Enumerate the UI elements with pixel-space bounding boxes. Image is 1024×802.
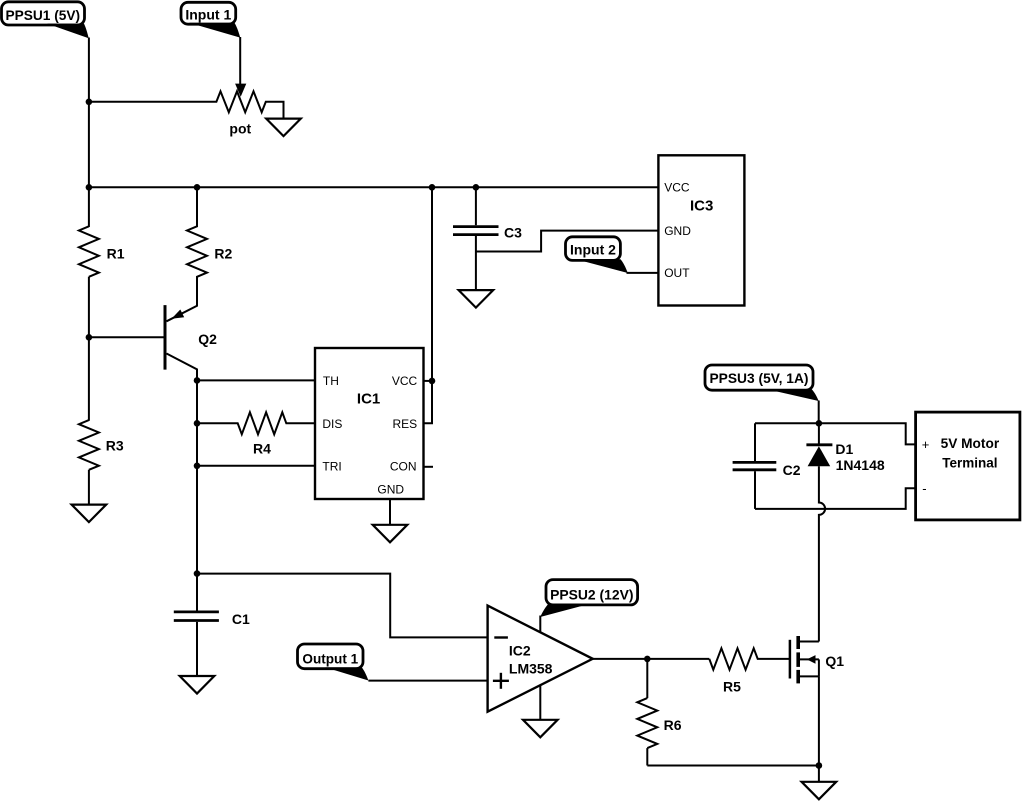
callout Input 1	[181, 2, 240, 37]
svg-text:GND: GND	[377, 482, 404, 496]
svg-text:TH: TH	[323, 374, 339, 388]
wire opamp V+ stub	[539, 616, 541, 634]
wire Q1 source to ground	[818, 676, 820, 782]
svg-text:Input 2: Input 2	[570, 241, 616, 257]
wire inverting input route	[197, 574, 488, 638]
wire PPSU3 drop	[818, 401, 820, 424]
svg-text:R1: R1	[107, 245, 125, 261]
svg-text:OUT: OUT	[664, 266, 690, 280]
wire R6 to Q1 source	[647, 765, 819, 767]
svg-text:R3: R3	[106, 438, 124, 454]
junction source R6	[816, 762, 823, 769]
ground C1	[180, 676, 215, 694]
svg-text:IC3: IC3	[690, 198, 713, 215]
svg-text:Q2: Q2	[198, 331, 217, 347]
pot wiper arrow	[235, 84, 246, 97]
svg-text:TRI: TRI	[322, 459, 341, 473]
junction TRI	[194, 463, 201, 470]
svg-text:VCC: VCC	[664, 181, 690, 195]
svg-text:+: +	[922, 437, 930, 452]
diode D1 1N4148	[806, 423, 884, 473]
wire IC3 OUT	[627, 272, 659, 274]
capacitor C2	[733, 423, 801, 509]
junction TH	[194, 377, 201, 384]
svg-text:R6: R6	[664, 717, 682, 733]
junction C1 tap	[194, 570, 201, 577]
wire IC1 GND pin	[389, 499, 391, 525]
junction C3 branch	[473, 184, 480, 191]
wire Q1 drain with hop	[819, 466, 825, 641]
wire Q2 base	[89, 336, 165, 338]
junction IC1 VCC branch	[429, 184, 436, 191]
svg-text:GND: GND	[664, 224, 691, 238]
svg-text:pot: pot	[229, 120, 251, 136]
wire top bus	[89, 186, 659, 188]
resistor R6	[637, 659, 681, 766]
svg-text:C1: C1	[232, 611, 250, 627]
resistor R2	[167, 187, 233, 321]
op-amp IC2 LM358	[488, 606, 593, 712]
wire non-inverting input	[368, 680, 487, 682]
svg-text:Input 1: Input 1	[185, 6, 231, 22]
potentiometer pot	[89, 91, 284, 136]
5V Motor Terminal box	[916, 412, 1020, 520]
svg-text:D1: D1	[835, 441, 853, 457]
callout Output 1	[298, 644, 369, 681]
resistor R3	[79, 420, 124, 470]
wire opamp output	[593, 658, 710, 660]
wire R3 to ground	[88, 470, 90, 505]
svg-text:R4: R4	[253, 441, 271, 457]
svg-text:CON: CON	[390, 459, 417, 473]
svg-text:PPSU3 (5V, 1A): PPSU3 (5V, 1A)	[710, 370, 809, 386]
resistor R4	[197, 412, 315, 456]
ground IC2	[523, 720, 558, 738]
junction IC1 VCC	[429, 378, 436, 385]
svg-text:LM358: LM358	[509, 660, 553, 676]
capacitor C3	[453, 187, 522, 290]
wire opamp V- stub	[539, 685, 541, 721]
svg-text:Terminal: Terminal	[942, 455, 997, 471]
wire 5V rail vertical (top)	[88, 38, 90, 228]
svg-text:R2: R2	[214, 245, 232, 261]
svg-text:Q1: Q1	[825, 653, 844, 669]
svg-text:IC1: IC1	[357, 390, 380, 407]
resistor R5	[709, 648, 790, 694]
svg-text:1N4148: 1N4148	[836, 457, 885, 473]
junction main bus left	[86, 184, 93, 191]
svg-text:5V Motor: 5V Motor	[941, 435, 1000, 451]
svg-text:PPSU1 (5V): PPSU1 (5V)	[6, 7, 81, 23]
transistor Q1	[790, 636, 844, 683]
junction DIS	[194, 420, 201, 427]
svg-text:-: -	[922, 481, 926, 496]
wire C3 to IC3 GND	[476, 231, 659, 252]
svg-text:VCC: VCC	[392, 374, 418, 388]
wire TH row	[197, 379, 315, 381]
callout PPSU3 (5V, 1A)	[705, 365, 819, 401]
callout Input 2	[566, 237, 628, 273]
ground R3	[72, 505, 107, 522]
wire pot wiper	[239, 37, 241, 85]
ground Q1	[802, 782, 837, 800]
IC3 box	[658, 155, 744, 305]
wire IC1 VCC-RES loop	[424, 187, 433, 423]
junction 5V motor rail	[816, 420, 823, 427]
ground pot	[266, 119, 301, 137]
wire motor plus rail	[755, 423, 916, 444]
wire motor minus rail	[755, 488, 916, 509]
svg-text:Output 1: Output 1	[302, 650, 358, 666]
svg-text:R5: R5	[723, 678, 741, 694]
wire R1 to R3	[88, 277, 90, 421]
junction Q2 base	[86, 334, 93, 341]
svg-text:DIS: DIS	[322, 417, 342, 431]
capacitor C1	[174, 574, 250, 677]
svg-text:C2: C2	[783, 462, 801, 478]
svg-text:RES: RES	[393, 417, 418, 431]
junction pot tap	[86, 99, 93, 106]
wire center vertical	[196, 380, 198, 573]
ground IC1	[373, 525, 408, 543]
IC1 box	[315, 348, 424, 499]
ground C3	[459, 290, 494, 308]
svg-text:PPSU2 (12V): PPSU2 (12V)	[550, 586, 633, 602]
callout PPSU2 (12V)	[540, 580, 637, 617]
svg-text:IC2: IC2	[509, 643, 531, 659]
wire IC1 CON stub	[424, 466, 434, 468]
transistor Q2	[165, 305, 217, 380]
callout PPSU1 (5V)	[2, 2, 89, 38]
svg-text:C3: C3	[504, 225, 522, 241]
resistor R1	[79, 226, 125, 276]
junction R2 branch	[194, 184, 201, 191]
wire TRI row	[197, 465, 315, 467]
junction R6 tap	[644, 656, 651, 663]
